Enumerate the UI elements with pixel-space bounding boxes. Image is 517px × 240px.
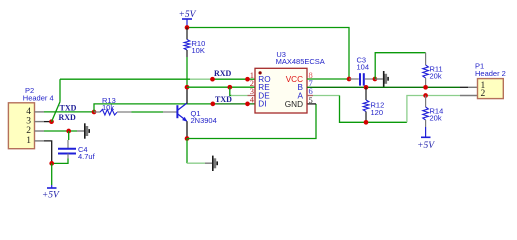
svg-text:RXD: RXD bbox=[214, 69, 232, 78]
node junction TXD mid bbox=[210, 102, 215, 107]
wire RXD horizontal bbox=[60, 78, 190, 80]
node junction TXD split bbox=[92, 110, 97, 115]
wire node to +5V symbol bbox=[51, 163, 53, 185]
P1 pin1 stub bbox=[468, 86, 478, 88]
IC U3 MAX485ECSA body bbox=[255, 50, 325, 113]
svg-text:10K: 10K bbox=[192, 46, 205, 55]
wire B line black segment bbox=[460, 86, 468, 88]
node junction P2 pin3 bbox=[49, 119, 54, 124]
wire RXD horizontal to U3 pin1 bbox=[213, 78, 256, 80]
wire P2 pin4 TXD to R13 node bbox=[44, 111, 94, 113]
svg-text:Header 4: Header 4 bbox=[23, 93, 54, 102]
resistor R10 10K bbox=[184, 28, 205, 58]
svg-text:4.7uf: 4.7uf bbox=[78, 152, 96, 161]
node junction U3 pin1 bbox=[245, 77, 250, 82]
wire TXD to U3 pin4 bbox=[213, 103, 255, 105]
node junction A/R14 bbox=[423, 93, 428, 98]
node junction RXD mid bbox=[210, 77, 215, 82]
svg-text:120: 120 bbox=[371, 108, 384, 117]
wire DE link pale segment bbox=[231, 95, 248, 97]
ground symbol below Q1 bbox=[205, 156, 217, 171]
svg-text:3: 3 bbox=[26, 117, 31, 127]
svg-text:GND: GND bbox=[285, 100, 303, 109]
wire P2 pin1 to +5V node bbox=[44, 141, 52, 164]
wire RXD pale segment bbox=[190, 78, 213, 80]
svg-text:20k: 20k bbox=[430, 114, 442, 123]
U3 pin5 stub bbox=[307, 103, 316, 105]
svg-text:2: 2 bbox=[481, 89, 486, 99]
svg-text:4: 4 bbox=[26, 107, 31, 117]
svg-text:+5V: +5V bbox=[417, 141, 435, 151]
header P2 bbox=[8, 86, 53, 149]
wire A net riser pale bbox=[407, 96, 460, 123]
wire TXD riser bbox=[94, 104, 213, 112]
wire P2 pin2 to ground bbox=[44, 130, 77, 132]
U3 pin3 stub bbox=[248, 95, 256, 97]
node junction at +5V top bbox=[185, 25, 190, 30]
transistor Q1 2N3904 bbox=[177, 103, 216, 125]
node junction A/R12 bottom bbox=[364, 120, 369, 125]
svg-text:MAX485ECSA: MAX485ECSA bbox=[276, 57, 325, 66]
node junction emitter bbox=[185, 136, 190, 141]
wire Q1 collector up bbox=[186, 87, 188, 103]
resistor R13 10k bbox=[94, 96, 132, 115]
wire RE line bbox=[187, 86, 255, 88]
ground symbol near P2 bbox=[77, 123, 89, 138]
node junction RE/DE tie bbox=[227, 85, 232, 90]
wire RXD riser diagonal bbox=[52, 102, 61, 122]
wire R10 bottom to collector node bbox=[186, 57, 188, 87]
svg-text:Header 2: Header 2 bbox=[475, 69, 506, 78]
P1 pin2 stub bbox=[460, 95, 478, 97]
wire emitter down to ground bbox=[186, 139, 188, 164]
wire gnd node to R11 top bbox=[375, 53, 425, 79]
svg-text:RXD: RXD bbox=[59, 113, 77, 122]
wire C4 bottom to +5V node bbox=[52, 159, 68, 164]
node junction +5V bottom-left bbox=[49, 161, 54, 166]
wire P2 pin3 to RXD riser bbox=[44, 121, 52, 123]
wire emitter to GND pin5 run bbox=[187, 104, 316, 139]
node junction B/R11 bbox=[423, 85, 428, 90]
node junction collector/RE bbox=[185, 85, 190, 90]
wire U3 pin7 B line bbox=[307, 86, 460, 88]
wire +5V top to VCC node bbox=[187, 28, 349, 80]
resistor R14 20k bbox=[423, 96, 443, 128]
wire RXD riser vertical bbox=[59, 79, 61, 102]
wire RE to DE link vertical bbox=[230, 87, 232, 95]
capacitor C3 104 bbox=[349, 55, 375, 85]
svg-text:+5V: +5V bbox=[179, 10, 197, 20]
wire Q1 emitter down bbox=[186, 121, 188, 138]
wire emitter ground stub pale bbox=[187, 162, 205, 164]
svg-text:5: 5 bbox=[309, 95, 313, 105]
wire U3 pin8 VCC to C3 bbox=[307, 78, 349, 80]
resistor R11 20k bbox=[423, 53, 443, 88]
svg-text:2: 2 bbox=[26, 126, 31, 136]
svg-text:2N3904: 2N3904 bbox=[191, 116, 217, 125]
wire R13 to Q1 base bbox=[132, 111, 164, 113]
power +5V bottom-left symbol bbox=[42, 185, 60, 201]
resistor R12 120 bbox=[363, 87, 384, 122]
U3 pin6 stub bbox=[307, 95, 313, 97]
capacitor C4 4.7uf bbox=[58, 131, 96, 161]
node junction C3 right / gnd bbox=[373, 77, 378, 82]
Q1 base pin lead bbox=[163, 111, 177, 113]
node junction VCC/C3 left bbox=[347, 77, 352, 82]
svg-text:104: 104 bbox=[357, 63, 370, 72]
svg-text:20k: 20k bbox=[430, 72, 442, 81]
power +5V top symbol bbox=[179, 10, 197, 28]
svg-text:+5V: +5V bbox=[42, 191, 60, 201]
wire A net pale from pin6 bbox=[313, 95, 340, 97]
wire A net detour down bbox=[340, 96, 407, 123]
svg-text:10k: 10k bbox=[102, 103, 114, 112]
node junction B/R12 bbox=[364, 85, 369, 90]
ground symbol near C3 bbox=[375, 71, 388, 87]
svg-text:DI: DI bbox=[258, 100, 266, 109]
svg-text:1: 1 bbox=[26, 136, 31, 146]
header P1 bbox=[475, 62, 506, 99]
node junction P2 pin2 bbox=[66, 129, 71, 134]
power +5V bottom-right symbol bbox=[417, 127, 435, 151]
node junction U3 pin4 bbox=[245, 102, 250, 107]
